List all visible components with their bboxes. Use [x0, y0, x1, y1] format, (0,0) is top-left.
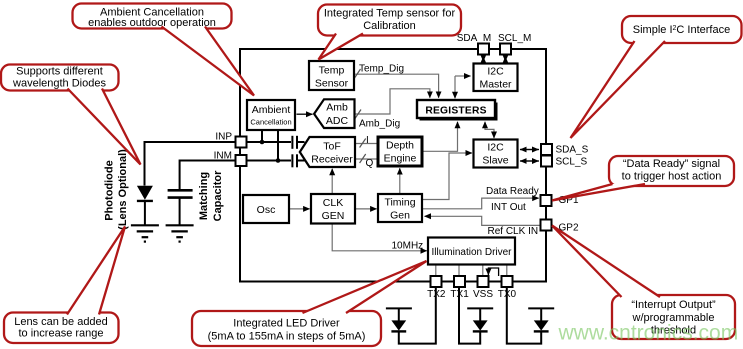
svg-text:Temp_Dig: Temp_Dig — [359, 64, 404, 75]
svg-text:Lens can be added: Lens can be added — [14, 316, 108, 328]
svg-text:Q: Q — [366, 158, 374, 169]
svg-text:(Lens Optional): (Lens Optional) — [117, 149, 129, 230]
svg-text:Master: Master — [479, 79, 512, 91]
svg-text:INP: INP — [215, 132, 232, 143]
svg-text:CLK: CLK — [323, 197, 343, 209]
svg-text:TX1: TX1 — [450, 289, 469, 300]
svg-text:Simple I2C Interface: Simple I2C Interface — [633, 24, 730, 36]
svg-text:Cancellation: Cancellation — [250, 118, 291, 127]
svg-text:INT Out: INT Out — [491, 202, 526, 213]
svg-text:(5mA to 155mA in steps of 5mA): (5mA to 155mA in steps of 5mA) — [208, 331, 366, 343]
svg-text:Sensor: Sensor — [315, 78, 349, 90]
svg-text:Photodiode: Photodiode — [104, 160, 116, 221]
svg-text:“Data Ready” signal: “Data Ready” signal — [623, 158, 720, 170]
svg-text:Amb: Amb — [326, 102, 348, 114]
svg-text:10MHz: 10MHz — [392, 241, 424, 252]
svg-text:TX2: TX2 — [427, 289, 446, 300]
svg-text:Integrated Temp sensor for: Integrated Temp sensor for — [324, 8, 456, 20]
svg-text:I2C: I2C — [487, 142, 504, 154]
svg-text:Temp: Temp — [319, 65, 345, 77]
svg-text:VSS: VSS — [473, 289, 493, 300]
svg-text:Illumination Driver: Illumination Driver — [431, 247, 512, 258]
svg-text:INM: INM — [214, 151, 232, 162]
svg-text:Timing: Timing — [384, 197, 415, 209]
svg-text:“Interrupt Output”: “Interrupt Output” — [631, 299, 716, 311]
svg-text:I2C: I2C — [487, 66, 504, 78]
svg-text:Ambient: Ambient — [252, 104, 291, 116]
svg-text:Data Ready: Data Ready — [486, 186, 539, 197]
svg-text:to trigger host action: to trigger host action — [622, 171, 722, 183]
svg-text:SDA_S: SDA_S — [556, 145, 589, 156]
svg-text:ADC: ADC — [326, 115, 349, 127]
svg-text:enables outdoor operation: enables outdoor operation — [88, 17, 216, 29]
svg-text:SDA_M: SDA_M — [457, 33, 491, 44]
svg-text:TX0: TX0 — [498, 289, 517, 300]
svg-text:Depth: Depth — [386, 140, 414, 152]
svg-text:GEN: GEN — [322, 210, 345, 222]
svg-text:REGISTERS: REGISTERS — [425, 106, 486, 117]
svg-text:ToF: ToF — [323, 141, 341, 153]
svg-text:Slave: Slave — [482, 155, 508, 167]
svg-text:Ref CLK IN: Ref CLK IN — [488, 226, 539, 237]
svg-text:SCL_S: SCL_S — [556, 157, 588, 168]
svg-text:I: I — [366, 135, 369, 146]
svg-text:Amb_Dig: Amb_Dig — [359, 119, 400, 130]
svg-text:Calibration: Calibration — [363, 20, 416, 32]
svg-text:Capacitor: Capacitor — [212, 170, 224, 221]
svg-text:Integrated LED Driver: Integrated LED Driver — [233, 318, 340, 330]
svg-text:SCL_M: SCL_M — [498, 33, 531, 44]
svg-text:Osc: Osc — [257, 204, 276, 216]
svg-text:www.cntronics.com: www.cntronics.com — [558, 322, 739, 345]
svg-text:Receiver: Receiver — [311, 154, 353, 166]
svg-text:Supports different: Supports different — [16, 66, 103, 78]
svg-text:Gen: Gen — [390, 210, 410, 222]
svg-text:Engine: Engine — [384, 153, 417, 165]
svg-text:wavelength Diodes: wavelength Diodes — [12, 78, 106, 90]
svg-text:Matching: Matching — [198, 172, 210, 220]
svg-text:to increase range: to increase range — [19, 328, 104, 340]
